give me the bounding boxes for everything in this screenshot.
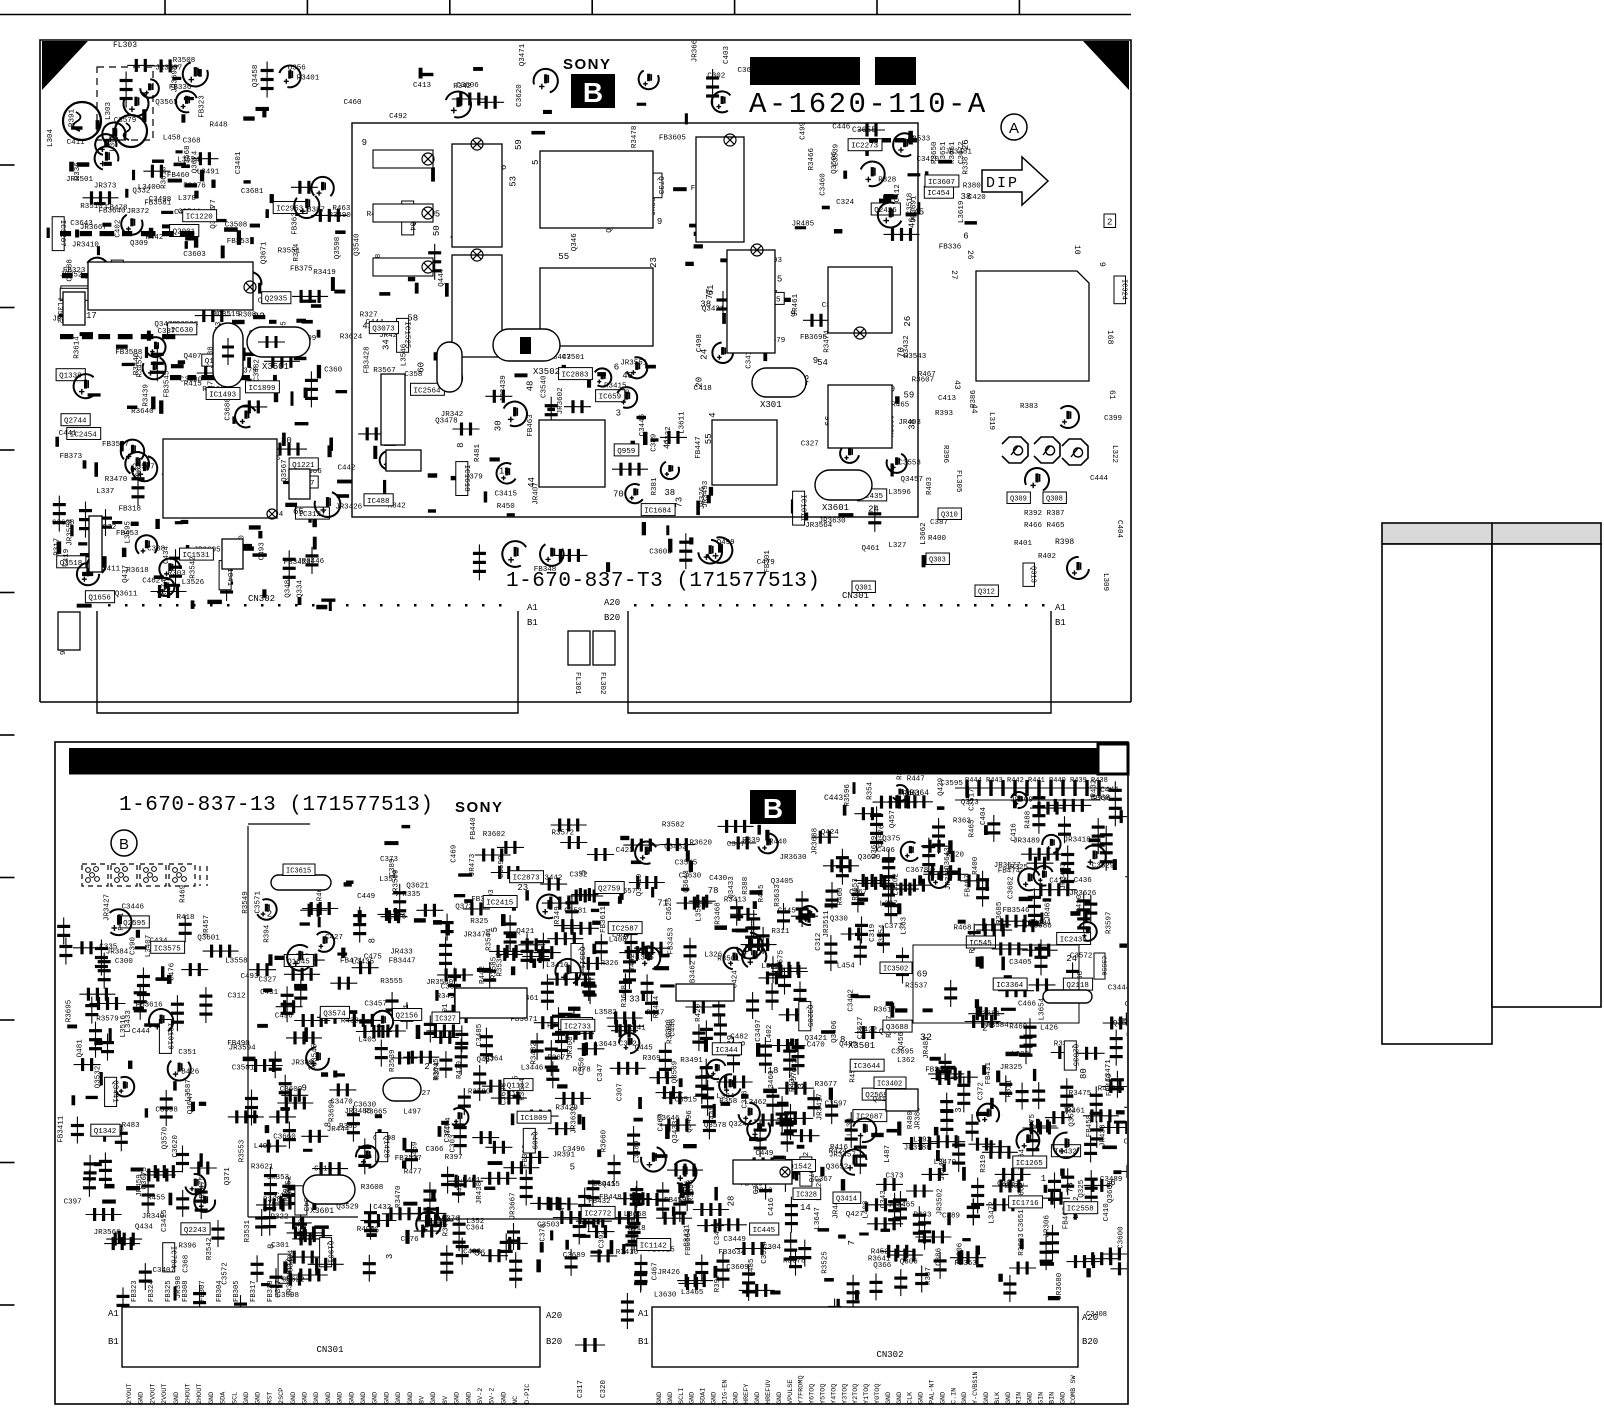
svg-text:L3446: L3446 (521, 1064, 544, 1072)
svg-text:R3542: R3542 (189, 556, 197, 579)
svg-text:FB459: FB459 (664, 1197, 687, 1205)
svg-text:Q3565: Q3565 (155, 99, 178, 107)
svg-text:C419: C419 (63, 549, 71, 567)
svg-text:5V-2: 5V-2 (489, 1388, 497, 1404)
svg-text:C410: C410 (1076, 894, 1084, 913)
svg-text:59: 59 (514, 139, 524, 150)
svg-text:C343: C343 (880, 1190, 888, 1209)
svg-text:JR326: JR326 (699, 486, 707, 509)
svg-text:R433: R433 (914, 1212, 933, 1220)
svg-text:X3601: X3601 (310, 1207, 334, 1216)
svg-text:C.IN: C.IN (950, 1388, 958, 1404)
svg-text:R469: R469 (179, 885, 187, 903)
svg-text:9: 9 (1097, 262, 1106, 267)
svg-text:R3419: R3419 (313, 269, 336, 277)
svg-text:8V: 8V (419, 1395, 427, 1404)
svg-text:JR325: JR325 (1000, 1064, 1023, 1072)
svg-text:R386: R386 (339, 1123, 358, 1131)
svg-text:7: 7 (847, 1240, 857, 1245)
svg-text:R388: R388 (742, 877, 750, 895)
svg-text:Q3671: Q3671 (261, 241, 269, 264)
svg-text:2VOUT: 2VOUT (161, 1384, 169, 1404)
svg-text:JR3588: JR3588 (904, 1144, 931, 1152)
svg-text:B: B (119, 836, 129, 853)
svg-text:Q373: Q373 (455, 903, 474, 911)
svg-text:2SCP: 2SCP (278, 1388, 286, 1404)
svg-text:BIN: BIN (1048, 1392, 1056, 1404)
svg-text:C366: C366 (426, 1146, 445, 1154)
svg-text:Y6TOQ: Y6TOQ (809, 1384, 817, 1404)
svg-text:JR372: JR372 (127, 208, 150, 216)
svg-text:Q346: Q346 (571, 233, 579, 252)
svg-text:GND: GND (711, 1392, 719, 1404)
svg-text:69: 69 (917, 969, 928, 979)
svg-text:Q437: Q437 (122, 565, 130, 583)
svg-text:GND: GND (885, 1392, 893, 1404)
svg-text:C397: C397 (64, 1199, 82, 1207)
svg-text:IC1618: IC1618 (462, 465, 470, 492)
svg-text:GND: GND (208, 1392, 216, 1404)
svg-text:C3630: C3630 (679, 872, 702, 880)
svg-text:GND: GND (918, 1392, 926, 1404)
svg-text:C460: C460 (344, 99, 363, 107)
svg-text:14: 14 (800, 1203, 811, 1213)
svg-text:Y5TOQ: Y5TOQ (820, 1384, 828, 1404)
svg-text:R3553: R3553 (239, 1139, 247, 1162)
svg-text:R3608: R3608 (361, 1184, 384, 1192)
svg-text:Y2TOQ: Y2TOQ (852, 1384, 860, 1404)
svg-text:C410: C410 (1103, 1203, 1111, 1222)
svg-text:2VOUT: 2VOUT (149, 1384, 157, 1404)
svg-text:6: 6 (614, 363, 619, 373)
svg-text:26: 26 (965, 250, 974, 260)
svg-text:C432: C432 (373, 1204, 391, 1212)
svg-text:C386: C386 (936, 1247, 944, 1266)
svg-text:C3457: C3457 (364, 1001, 387, 1009)
svg-text:L3539: L3539 (833, 144, 841, 167)
svg-text:JR3439: JR3439 (500, 375, 508, 402)
svg-text:R470: R470 (456, 1060, 464, 1079)
svg-text:Q330: Q330 (830, 916, 849, 924)
svg-text:R402: R402 (1038, 553, 1056, 561)
svg-text:IC1809: IC1809 (520, 1115, 547, 1123)
svg-text:R450: R450 (497, 503, 516, 511)
svg-text:Q3421: Q3421 (702, 306, 725, 314)
svg-text:R3470: R3470 (105, 476, 128, 484)
svg-text:C3550: C3550 (1100, 956, 1107, 976)
svg-text:FL303: FL303 (113, 41, 137, 50)
svg-text:Q409: Q409 (529, 1131, 537, 1149)
svg-text:80: 80 (1079, 1068, 1089, 1079)
svg-text:Q407: Q407 (184, 353, 202, 361)
svg-text:R477: R477 (404, 1169, 422, 1177)
svg-text:Q481: Q481 (77, 1039, 85, 1058)
svg-text:28: 28 (727, 1196, 737, 1207)
svg-text:Y-CVBS1N: Y-CVBS1N (972, 1371, 980, 1404)
svg-text:C3432: C3432 (903, 335, 911, 358)
svg-text:X301: X301 (760, 400, 782, 410)
svg-text:R3677: R3677 (815, 1081, 838, 1089)
svg-text:L327: L327 (888, 542, 906, 550)
svg-text:C300: C300 (115, 958, 134, 966)
svg-text:C425: C425 (792, 1054, 800, 1073)
svg-text:C3454: C3454 (714, 1222, 722, 1245)
svg-text:RST: RST (266, 1392, 274, 1404)
svg-text:B1: B1 (108, 1337, 119, 1347)
svg-text:GND: GND (337, 1392, 345, 1404)
svg-text:C3460: C3460 (768, 1070, 776, 1093)
svg-text:C418: C418 (628, 1225, 646, 1233)
svg-text:8V: 8V (442, 1395, 450, 1404)
svg-text:R3660: R3660 (600, 1129, 608, 1152)
svg-text:C3680: C3680 (225, 398, 233, 421)
svg-text:C3625: C3625 (666, 897, 674, 920)
svg-text:C3590: C3590 (498, 855, 506, 878)
svg-text:FB317: FB317 (250, 1280, 258, 1302)
svg-text:C3678: C3678 (906, 867, 929, 875)
svg-text:B1: B1 (638, 1337, 649, 1347)
svg-text:R335: R335 (402, 891, 421, 899)
svg-text:GND: GND (138, 1392, 146, 1404)
svg-text:R3607: R3607 (912, 377, 935, 385)
svg-text:JR3580: JR3580 (426, 979, 454, 987)
svg-text:JR3418: JR3418 (1064, 836, 1091, 844)
svg-text:JR3502: JR3502 (936, 1188, 944, 1215)
svg-text:FB318: FB318 (267, 1280, 275, 1302)
svg-text:FB458: FB458 (1086, 1115, 1094, 1138)
svg-text:FB453: FB453 (116, 530, 139, 538)
svg-text:IC2558: IC2558 (1067, 1206, 1094, 1214)
svg-text:FB334: FB334 (1000, 1183, 1023, 1191)
svg-text:1: 1 (1041, 1174, 1046, 1184)
svg-text:R344: R344 (293, 243, 301, 262)
svg-text:C3482: C3482 (664, 844, 687, 852)
svg-text:COMB SW: COMB SW (1070, 1375, 1078, 1404)
svg-text:JR306: JR306 (1043, 1214, 1051, 1237)
svg-text:CN302: CN302 (876, 1350, 903, 1360)
svg-text:Y3TOQ: Y3TOQ (841, 1384, 849, 1404)
svg-text:R3683: R3683 (1018, 1233, 1026, 1256)
svg-text:R325: R325 (470, 918, 489, 926)
svg-text:FB3453: FB3453 (668, 927, 676, 955)
svg-text:L3472: L3472 (989, 1201, 997, 1224)
svg-text:23: 23 (649, 257, 659, 268)
svg-text:C332: C332 (570, 872, 588, 880)
svg-text:R313: R313 (755, 1187, 774, 1195)
svg-text:44: 44 (969, 404, 978, 414)
svg-text:Q3311: Q3311 (577, 947, 585, 970)
svg-text:C475: C475 (364, 954, 383, 962)
svg-text:R442: R442 (479, 966, 487, 984)
svg-text:Q309: Q309 (130, 240, 148, 248)
svg-text:53: 53 (509, 176, 519, 187)
svg-text:L476: L476 (388, 913, 407, 921)
svg-text:R3430: R3430 (616, 1249, 639, 1257)
svg-text:Q3073: Q3073 (372, 326, 395, 334)
svg-text:IC2436: IC2436 (1060, 937, 1088, 945)
svg-text:Q424: Q424 (821, 829, 840, 837)
svg-text:C3482: C3482 (253, 359, 261, 382)
svg-text:R448: R448 (210, 121, 228, 129)
svg-text:55: 55 (558, 252, 569, 262)
svg-text:C499: C499 (800, 122, 808, 140)
svg-text:JR3465: JR3465 (888, 1201, 916, 1209)
svg-text:L3402: L3402 (892, 873, 900, 896)
svg-text:R3579: R3579 (96, 1016, 119, 1024)
svg-text:R3562: R3562 (666, 1021, 674, 1044)
svg-text:R463: R463 (332, 205, 351, 213)
svg-text:Q3441: Q3441 (111, 1080, 119, 1103)
svg-text:L304: L304 (47, 128, 55, 147)
svg-text:VPULSE: VPULSE (787, 1380, 795, 1404)
svg-text:Q2156: Q2156 (396, 1013, 419, 1021)
svg-text:C327: C327 (801, 441, 819, 449)
svg-text:C3415: C3415 (161, 1209, 169, 1232)
svg-text:L3524: L3524 (177, 157, 200, 165)
svg-text:Q421: Q421 (516, 928, 535, 936)
svg-text:R3537: R3537 (905, 982, 928, 990)
svg-text:GND: GND (255, 1392, 263, 1404)
svg-text:R3475: R3475 (1069, 1090, 1092, 1098)
svg-text:3: 3 (616, 409, 621, 419)
svg-text:A1: A1 (1055, 603, 1066, 613)
svg-text:C496: C496 (275, 1013, 294, 1021)
svg-text:R460: R460 (1009, 1023, 1028, 1031)
svg-text:IC2415: IC2415 (486, 900, 514, 908)
svg-text:Q434: Q434 (135, 1224, 154, 1232)
svg-text:JR308: JR308 (567, 1036, 575, 1059)
svg-text:R391: R391 (69, 108, 77, 127)
svg-text:IC659: IC659 (599, 394, 622, 402)
svg-text:R392 R387: R392 R387 (1024, 510, 1065, 518)
svg-text:GND: GND (465, 1392, 473, 1404)
svg-text:R400: R400 (972, 856, 980, 875)
svg-text:C418: C418 (694, 385, 712, 393)
svg-text:JR443: JR443 (939, 1157, 947, 1180)
svg-text:JR3554: JR3554 (66, 518, 74, 546)
svg-text:2HOUT: 2HOUT (196, 1384, 204, 1404)
svg-text:JR461: JR461 (792, 293, 800, 316)
svg-text:IC3644: IC3644 (853, 1063, 881, 1071)
svg-text:C449: C449 (755, 1150, 773, 1158)
svg-text:C412: C412 (894, 184, 902, 202)
svg-text:IC2772: IC2772 (584, 1210, 611, 1218)
svg-text:FB324: FB324 (148, 1280, 156, 1302)
svg-text:C320: C320 (600, 1379, 608, 1398)
svg-text:R455: R455 (147, 1194, 166, 1202)
svg-text:Q2835: Q2835 (1070, 1044, 1078, 1067)
svg-text:L3596: L3596 (888, 489, 911, 497)
svg-text:GND: GND (372, 1392, 380, 1404)
svg-text:C3402: C3402 (847, 989, 855, 1012)
svg-text:C327: C327 (259, 976, 277, 984)
svg-text:Q325: Q325 (1078, 1179, 1086, 1198)
svg-text:Q3598: Q3598 (334, 237, 342, 260)
svg-text:FB308: FB308 (182, 1280, 190, 1302)
svg-text:R339: R339 (742, 837, 760, 845)
svg-text:JR3594: JR3594 (229, 1045, 257, 1053)
svg-text:Q444: Q444 (438, 268, 446, 287)
svg-text:C3494: C3494 (288, 1249, 296, 1272)
svg-text:R336: R336 (74, 162, 82, 181)
svg-text:C324: C324 (836, 199, 855, 207)
svg-text:FB431: FB431 (985, 1061, 993, 1084)
svg-text:L3546: L3546 (401, 343, 409, 366)
svg-text:C312: C312 (815, 933, 823, 951)
svg-text:R394: R394 (264, 924, 272, 943)
svg-text:SCL: SCL (231, 1392, 239, 1404)
svg-text:C444: C444 (132, 1028, 151, 1036)
svg-text:C302: C302 (707, 72, 725, 80)
svg-text:C389: C389 (651, 434, 659, 452)
svg-text:C3489: C3489 (1100, 1176, 1123, 1184)
svg-text:L3630: L3630 (654, 1291, 677, 1299)
svg-text:IC454: IC454 (927, 190, 950, 198)
svg-text:L3582: L3582 (594, 1009, 617, 1017)
svg-text:FB375: FB375 (290, 266, 313, 274)
svg-text:GND: GND (656, 1392, 664, 1404)
svg-text:R460: R460 (837, 887, 845, 906)
svg-text:FB304: FB304 (216, 1280, 224, 1302)
svg-text:27: 27 (949, 270, 958, 280)
svg-text:R3641: R3641 (868, 1256, 891, 1264)
svg-text:B20: B20 (604, 613, 620, 623)
svg-text:C3620: C3620 (172, 1134, 180, 1157)
svg-text:GND: GND (1027, 1392, 1035, 1404)
svg-text:IC1265: IC1265 (1016, 1160, 1044, 1168)
svg-text:C3655: C3655 (852, 126, 876, 135)
svg-text:33: 33 (629, 994, 640, 1004)
svg-text:1-670-837-T3 (171577513): 1-670-837-T3 (171577513) (506, 570, 820, 593)
svg-text:FB3447: FB3447 (389, 957, 416, 965)
svg-text:FB3546: FB3546 (1003, 907, 1031, 915)
svg-text:L445: L445 (709, 1105, 717, 1124)
svg-text:R3539: R3539 (389, 1049, 397, 1072)
svg-text:Q2935: Q2935 (265, 296, 288, 304)
svg-text:C3660: C3660 (273, 1133, 296, 1141)
svg-text:C307: C307 (617, 1083, 625, 1101)
svg-text:C3503: C3503 (537, 1222, 560, 1230)
svg-text:R3685: R3685 (996, 901, 1004, 924)
svg-text:Y1TOQ: Y1TOQ (863, 1384, 871, 1404)
svg-text:Q2595: Q2595 (123, 920, 146, 928)
svg-text:C422: C422 (859, 1026, 877, 1034)
svg-text:5: 5 (570, 1162, 575, 1172)
svg-text:R326: R326 (601, 960, 620, 968)
svg-text:Q1656: Q1656 (88, 595, 111, 603)
svg-text:R3582: R3582 (662, 822, 685, 830)
svg-text:R3668: R3668 (621, 985, 629, 1008)
svg-text:C470: C470 (807, 1041, 826, 1049)
svg-text:FB474: FB474 (998, 867, 1021, 875)
svg-text:R3620: R3620 (690, 840, 713, 848)
svg-text:R3676: R3676 (183, 182, 206, 190)
svg-text:C3449: C3449 (723, 1236, 746, 1244)
svg-text:C317: C317 (577, 1380, 585, 1398)
svg-text:Q1342: Q1342 (94, 1128, 117, 1136)
svg-text:R3544: R3544 (486, 928, 494, 951)
svg-text:GND: GND (395, 1392, 403, 1404)
svg-text:17: 17 (86, 311, 97, 321)
svg-text:Q3205: Q3205 (805, 1005, 813, 1028)
svg-text:C389: C389 (389, 858, 397, 876)
svg-text:JR433: JR433 (390, 948, 413, 956)
svg-text:C390: C390 (130, 936, 138, 955)
svg-text:L357: L357 (379, 876, 397, 884)
svg-text:JR3630: JR3630 (780, 854, 808, 862)
svg-text:C3501: C3501 (232, 1065, 255, 1073)
svg-text:A-1620-110-A: A-1620-110-A (749, 88, 988, 121)
svg-text:R408: R408 (357, 1226, 375, 1234)
svg-text:JR330: JR330 (945, 867, 953, 890)
svg-text:C457: C457 (791, 1072, 799, 1090)
svg-text:C3401: C3401 (235, 151, 243, 174)
svg-text:FB3428: FB3428 (364, 346, 372, 373)
svg-text:R3661: R3661 (949, 141, 957, 164)
svg-text:C3517: C3517 (969, 788, 977, 811)
svg-text:C3598: C3598 (155, 1107, 178, 1115)
svg-text:GND: GND (689, 1392, 697, 1404)
svg-text:R483: R483 (122, 1122, 141, 1130)
svg-text:L319: L319 (987, 412, 995, 430)
svg-text:C319: C319 (869, 924, 877, 942)
svg-text:Q3611: Q3611 (115, 591, 138, 599)
svg-text:FB3429: FB3429 (284, 559, 311, 567)
svg-text:CLK: CLK (907, 1391, 915, 1404)
svg-text:R398: R398 (1055, 538, 1074, 547)
svg-text:L306: L306 (957, 1242, 965, 1261)
svg-text:73: 73 (675, 497, 685, 508)
svg-text:FB3611: FB3611 (600, 905, 608, 933)
svg-text:R3482: R3482 (530, 1042, 538, 1065)
svg-text:JR3410: JR3410 (72, 242, 100, 250)
svg-text:C3677: C3677 (275, 1275, 283, 1298)
svg-text:C466: C466 (1018, 1000, 1037, 1008)
svg-text:B: B (763, 793, 783, 824)
svg-text:IC327: IC327 (435, 1016, 456, 1024)
svg-text:1-670-837-13 (171577513): 1-670-837-13 (171577513) (119, 794, 433, 817)
svg-text:Q3457: Q3457 (901, 476, 924, 484)
svg-text:GND: GND (454, 1392, 462, 1404)
svg-text:43: 43 (952, 380, 961, 390)
svg-text:C335: C335 (99, 944, 118, 952)
svg-text:5V-2: 5V-2 (477, 1388, 485, 1404)
svg-text:L3662: L3662 (920, 522, 928, 545)
svg-text:R387: R387 (925, 1267, 933, 1285)
svg-text:FB318: FB318 (119, 506, 142, 514)
svg-text:IC3575: IC3575 (154, 945, 182, 953)
svg-text:61: 61 (1107, 390, 1116, 400)
svg-text:Q3540: Q3540 (354, 233, 362, 256)
svg-text:SDA: SDA (220, 1391, 228, 1404)
svg-text:C3695: C3695 (891, 1048, 914, 1056)
svg-text:FB3411: FB3411 (58, 1115, 66, 1143)
svg-text:L3580: L3580 (696, 899, 704, 922)
svg-text:JR3483: JR3483 (1060, 862, 1068, 890)
svg-text:R349: R349 (554, 906, 562, 924)
svg-text:GND: GND (360, 1392, 368, 1404)
svg-text:JR459: JR459 (136, 1174, 144, 1197)
svg-text:JR3566: JR3566 (94, 1229, 122, 1237)
svg-text:C372: C372 (978, 1082, 986, 1100)
svg-text:JR3680: JR3680 (1056, 1272, 1064, 1300)
svg-text:C399: C399 (1104, 415, 1122, 423)
svg-text:L3465: L3465 (681, 1289, 704, 1297)
svg-text:B: B (583, 77, 603, 108)
svg-text:FL305: FL305 (954, 470, 962, 493)
svg-text:50: 50 (432, 225, 442, 236)
svg-text:L3611: L3611 (679, 411, 687, 434)
